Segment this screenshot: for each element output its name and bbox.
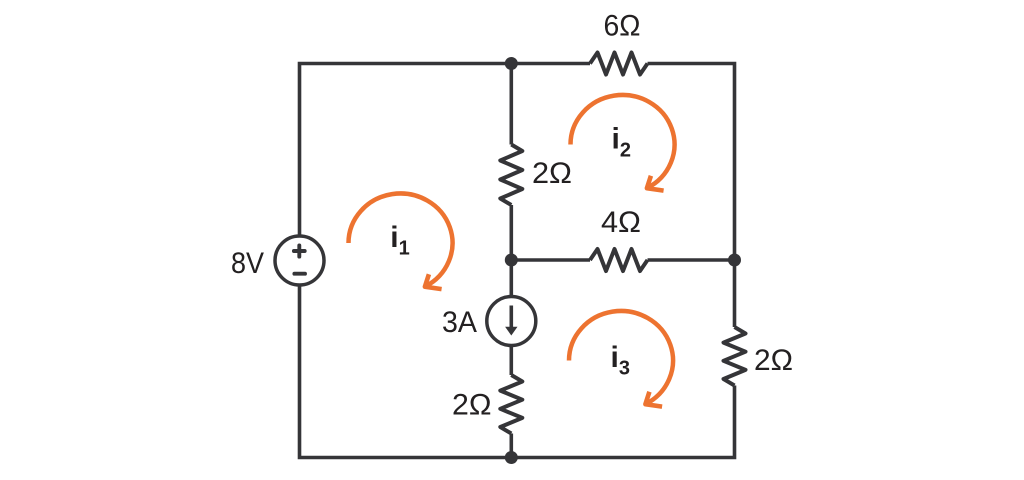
node right middle (junction dot) — [728, 254, 741, 267]
svg-text:2Ω: 2Ω — [532, 157, 572, 190]
voltage source 8V — [275, 236, 324, 285]
node bottom middle (junction dot) — [505, 451, 518, 464]
wire middle vertical lowest — [509, 434, 513, 458]
svg-text:i1: i1 — [390, 221, 409, 260]
svg-text:6Ω: 6Ω — [604, 10, 641, 43]
svg-text:i3: i3 — [611, 341, 630, 380]
svg-text:i2: i2 — [612, 123, 631, 162]
resistor 6ohm (top) — [590, 53, 648, 75]
resistor 2ohm (middle) — [500, 145, 522, 206]
svg-text:3A: 3A — [442, 306, 477, 339]
svg-text:8V: 8V — [231, 247, 264, 280]
wire middle vertical between resistor and current source — [509, 205, 513, 297]
mesh current arrow i1 — [348, 193, 452, 286]
wire left + top-left segment — [300, 64, 591, 237]
wire top-right + right upper — [648, 64, 735, 328]
wire middle horizontal left part — [511, 258, 590, 262]
svg-text:2Ω: 2Ω — [754, 344, 793, 377]
current source 3A — [487, 297, 536, 346]
resistor 2ohm (right) — [724, 327, 746, 386]
svg-text:4Ω: 4Ω — [601, 206, 641, 239]
node middle (junction dot) — [505, 254, 518, 267]
resistor 4ohm (middle horizontal) — [590, 249, 648, 271]
wire middle vertical upper — [509, 64, 513, 145]
mesh current arrow i3 — [569, 311, 673, 404]
node top middle (junction dot) — [505, 57, 518, 70]
wire right lower + bottom + left lower — [300, 285, 735, 458]
resistor 2ohm (bottom middle) — [500, 375, 522, 434]
wire middle vertical below current source — [509, 346, 513, 376]
wire middle horizontal right part — [648, 258, 735, 262]
mesh current arrow i2 — [571, 95, 675, 188]
svg-text:2Ω: 2Ω — [452, 389, 492, 422]
